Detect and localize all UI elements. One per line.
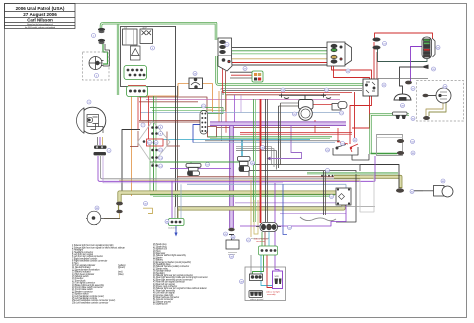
lamp 1 sidecar front light bulb <box>89 57 104 70</box>
wire dark mid <box>205 140 340 142</box>
svg-text:16 Fusebox: 16 Fusebox <box>72 278 84 280</box>
wire top right red loop <box>375 33 433 39</box>
node 7 <box>141 123 145 127</box>
alternator ground blob <box>423 116 430 120</box>
node 27 <box>411 87 415 91</box>
node 44 <box>288 226 292 230</box>
speedometer 12 <box>87 211 101 225</box>
node 21 <box>340 111 344 115</box>
headlight 3 <box>77 107 106 134</box>
node 22 <box>382 83 386 87</box>
node 19 <box>325 88 329 92</box>
node 18 <box>281 88 285 92</box>
wire red battery drop <box>354 92 356 142</box>
rear connectors 16/17 blobs <box>397 139 404 143</box>
node 2 <box>95 74 99 78</box>
node 45 <box>224 232 228 236</box>
title block <box>5 4 76 29</box>
wire orange loop flasher <box>132 84 190 197</box>
wire green to sidecar bulb <box>103 44 108 64</box>
wire trapezoidA tail feeds <box>230 71 252 73</box>
wire maroon band upper <box>139 97 207 127</box>
engine connector cluster <box>256 223 281 232</box>
node 17 <box>243 67 247 71</box>
wire black rear frame outline <box>252 165 360 172</box>
horn 28 <box>394 94 411 100</box>
wire cyan bus <box>163 139 310 141</box>
condenser 22 <box>332 102 347 111</box>
spark plug 26a <box>279 94 289 99</box>
fuse 16 (green fed) <box>186 164 201 176</box>
brake switch 15 lever a <box>336 145 346 150</box>
wire speedo khaki <box>118 205 120 210</box>
svg-text:connector: connector <box>256 240 265 243</box>
connector 6b <box>98 39 105 44</box>
wire lavender rows <box>235 202 345 204</box>
wire gray relay to horn area <box>378 78 428 80</box>
node 43 <box>441 179 445 183</box>
node 30 <box>411 117 415 121</box>
node 13 <box>159 156 163 160</box>
wire purple drop to C1 <box>274 183 276 246</box>
svg-text:neutral sw: neutral sw <box>168 227 177 230</box>
wire red pair down from connectors <box>373 42 375 79</box>
wire red pair from trapezoid A down and right <box>223 66 353 93</box>
wire fuse2 green feed <box>191 162 203 163</box>
wire red coil feed <box>313 104 340 106</box>
tail light 47 <box>423 186 453 198</box>
wire green bus mid vertical and right run <box>217 56 364 85</box>
wire gray inner box rear <box>377 135 403 156</box>
wire purple band thick vertical to ground <box>229 126 233 228</box>
wire purple from pin strip <box>411 47 423 82</box>
warning triangle box <box>131 46 141 60</box>
node 29 <box>443 85 447 89</box>
dashed enclosure sidecar front light <box>83 52 110 80</box>
node 20 <box>293 112 297 116</box>
wire green ignition drop <box>130 60 132 65</box>
left handlebar diamond 25 <box>138 121 171 164</box>
wire red ignition drop <box>144 43 146 65</box>
title text <box>16 6 65 29</box>
wire gray frame corner brackets <box>236 147 272 164</box>
connector 6a (front turn signal connector) <box>98 28 105 33</box>
wire blue arrow below connector 18 <box>175 226 177 234</box>
wire dark long vertical harness <box>175 26 177 207</box>
node 1 <box>92 34 96 38</box>
wire khaki hook <box>143 208 153 213</box>
node 11 <box>154 141 158 145</box>
connector C1 (sidecar plug 31) <box>259 246 278 255</box>
wire purple drop right <box>234 95 236 122</box>
node 28 <box>401 104 405 108</box>
sidecar box outline <box>245 267 286 301</box>
node 10 <box>148 141 152 145</box>
wire blue into indicator <box>193 125 201 143</box>
node 36 <box>251 161 255 165</box>
alternator 30 <box>436 88 451 103</box>
neutral switch connector 18 <box>169 219 185 226</box>
lamp block (X symbols) <box>140 29 153 44</box>
wire C1 feeds from engine <box>261 232 263 246</box>
wire red junction drop <box>338 128 348 144</box>
wire alternator leads <box>428 95 437 97</box>
wire tail light stub <box>410 190 423 192</box>
wire bluegray row <box>140 112 340 114</box>
wire blue from engine connector <box>283 184 287 234</box>
rear top connector on green box <box>393 112 408 119</box>
purple end connector blob <box>405 81 412 85</box>
wire gray pair to relay <box>221 89 362 90</box>
node 26 <box>432 67 436 71</box>
fuse 17 (cyan fed) <box>238 157 251 172</box>
wire gray coil left pair <box>281 102 299 104</box>
control box outline (ignition group) <box>118 25 176 96</box>
node 12 <box>159 148 163 152</box>
wire red pair mid <box>240 132 352 134</box>
node 23 <box>346 69 350 73</box>
dashed enclosure alternator <box>417 81 464 122</box>
wire purple+gray from headlight to rear <box>98 156 375 181</box>
svg-text:LAMP: LAMP <box>142 26 148 29</box>
sidecar purple box <box>273 271 283 289</box>
indicator lamp strip 10-14 <box>200 111 208 135</box>
wire magenta run <box>146 99 340 101</box>
node 4 <box>107 149 111 153</box>
sidecar bottom connector <box>249 291 263 298</box>
svg-text:assembly: assembly <box>267 294 275 296</box>
wire purple band ground blob <box>228 228 234 232</box>
wire blue row lower <box>187 183 346 185</box>
svg-text:27 August 2006: 27 August 2006 <box>23 12 57 17</box>
wire gray band2 <box>178 205 375 207</box>
node 37 <box>206 163 210 167</box>
WIRES-MAIN <box>86 23 446 287</box>
wire orange drop right <box>218 91 220 123</box>
node 25 <box>436 46 440 50</box>
wire red pair down to diamond <box>137 96 139 130</box>
node 16 <box>193 72 197 76</box>
node 15 <box>202 104 206 108</box>
wire maroon diamond loop <box>139 120 200 122</box>
wire green verticals through diamond <box>153 96 155 192</box>
relay 37 (starter relay) <box>363 79 378 96</box>
wire green lower pair <box>150 194 335 196</box>
node 14 <box>159 164 163 168</box>
wire trapezoidA to B harness <box>232 47 327 49</box>
node 46 <box>231 235 235 239</box>
diamond pin row 4 <box>151 149 158 152</box>
svg-text:17 Fuse block: 17 Fuse block <box>72 280 86 282</box>
svg-text:Based on the factory diagram o: Based on the factory diagram of <box>27 23 53 26</box>
ignition coil 27 <box>299 100 314 121</box>
wire green pair mid <box>208 136 332 138</box>
wire box37 stub <box>229 235 234 241</box>
alternator connector blob <box>423 94 429 98</box>
connector 4 headlight connector <box>94 146 107 156</box>
node 8 <box>159 125 163 129</box>
node 31 <box>341 142 345 146</box>
wire teal loop to pin strip bottom <box>378 49 428 62</box>
wire lavender drop right <box>240 95 242 113</box>
wire black brake switch run <box>333 147 358 155</box>
node 24 <box>383 42 387 46</box>
node 5 <box>151 46 155 50</box>
box 45 (power connector) <box>226 240 239 255</box>
wire olive thick band <box>120 193 344 209</box>
spark plug 26b <box>321 94 331 99</box>
connector B (handlebar right connector 8) <box>127 86 148 97</box>
node 49 <box>230 255 234 259</box>
wire relay20 purple <box>240 205 346 226</box>
svg-text:2006 Ural Patrol (USA): 2006 Ural Patrol (USA) <box>16 6 65 11</box>
svg-text:Carl Nilsson: Carl Nilsson <box>27 17 53 22</box>
svg-text:(yellow): (yellow) <box>118 265 126 267</box>
svg-text:sidecar ground: sidecar ground <box>250 299 263 301</box>
node 41 <box>330 195 334 199</box>
node 33 <box>326 148 330 152</box>
wire rear ground blob <box>396 188 404 192</box>
node 39 <box>95 206 99 210</box>
wire dark pair into frame junction <box>278 106 280 168</box>
node 35 <box>411 151 415 155</box>
wire olive stub connector blobs <box>116 202 123 206</box>
connector 9 item <box>424 65 429 70</box>
flasher relay 34 <box>189 78 203 89</box>
wire purple band thick horizontal <box>210 121 346 125</box>
diamond pin row 6 below <box>151 164 158 167</box>
diamond pin row 5 <box>151 156 158 159</box>
wire green bus top (sidecar light feed) <box>101 23 216 40</box>
wire red from trapezoid B right <box>334 66 370 128</box>
wire plug HT leads <box>284 94 326 96</box>
wire khaki U near engine <box>254 200 258 234</box>
LABELS: numbered blue circles <box>87 34 447 284</box>
wire gray sidecar outline right <box>360 175 374 212</box>
svg-text:the 2006 model, redrawn and up: the 2006 model, redrawn and updated <box>25 26 55 29</box>
node 50 <box>326 169 330 173</box>
diamond pin row 3 <box>143 140 156 144</box>
node 34 <box>411 140 415 144</box>
wire maroon from indicator block right <box>217 127 331 129</box>
node 6 <box>225 43 229 47</box>
svg-text:(blue): (blue) <box>118 274 124 276</box>
wire black headlight shell <box>122 130 140 193</box>
wire tan verticals control box <box>123 45 125 65</box>
wire purple upper row <box>170 168 231 170</box>
node 3 <box>87 100 91 104</box>
wire green box (rear frame) <box>371 115 410 155</box>
wire red drop right <box>225 95 227 133</box>
wire bracket curve (frame) <box>300 217 336 221</box>
connector B1 (upper harness connector) <box>252 71 263 82</box>
connector A (ignition connector) <box>124 66 147 80</box>
brake switch 15 lever b (red) <box>350 144 358 152</box>
node 40 <box>144 202 148 206</box>
wire C1 to sidecar box <box>250 255 252 274</box>
pin strip connector 36 <box>422 37 435 59</box>
sidecar inner connector left <box>250 274 263 281</box>
node 47 <box>247 238 251 242</box>
relay 35 (headlight relay 20) <box>336 188 351 205</box>
wire bundle into connector 18 <box>177 208 179 218</box>
node 42 <box>410 190 414 194</box>
wire purple S-bend with arrow <box>270 126 302 159</box>
svg-text:SPK: SPK <box>275 276 280 278</box>
node 38 <box>165 220 169 224</box>
connector pair top right <box>373 38 381 50</box>
wire blue high beam <box>193 142 335 144</box>
node 9 <box>159 132 163 136</box>
trapezoid connector A (harness plug) <box>218 38 232 71</box>
wire dark starter drop <box>323 171 325 215</box>
LEGEND (placeholder, filled below) <box>72 243 208 305</box>
wire headlight connector drops <box>97 137 99 145</box>
wire green fuse feed row <box>150 161 240 163</box>
junction dots row <box>321 175 333 177</box>
trapezoid connector B (frame harness plug) <box>327 42 352 66</box>
wire gray drop right <box>221 91 223 141</box>
wire tan row <box>119 179 360 181</box>
wire vertical bundle B2 to engine connector <box>253 99 255 222</box>
wire orange to indicator <box>208 109 213 111</box>
node 48 <box>240 280 244 284</box>
wire black horn circuit <box>400 67 425 94</box>
diamond pin row 1 <box>151 126 158 129</box>
node 51 <box>261 146 265 150</box>
node 32 <box>353 138 357 142</box>
ignition switch 23 <box>123 29 138 45</box>
diamond pin row 2 <box>151 132 158 135</box>
wire green row upper <box>150 108 223 114</box>
wire maroon long row <box>177 176 334 178</box>
wire green double lower right <box>307 172 398 174</box>
diamond switch red box <box>147 139 164 146</box>
wire purple right drop <box>374 156 376 181</box>
wire olive band3 thick to rear ground <box>334 177 401 188</box>
